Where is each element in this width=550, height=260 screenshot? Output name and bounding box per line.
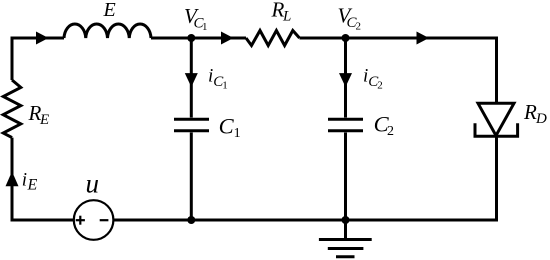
wire C2 branch lower [344, 133, 347, 221]
arrow i_C2 [339, 73, 352, 87]
arrow after V_C2 [417, 32, 430, 45]
junction dot ground [342, 216, 350, 224]
arrow on top wire left [36, 32, 49, 45]
wire C2 branch upper [344, 38, 347, 118]
ground [319, 220, 372, 257]
arrow i_E [6, 172, 19, 187]
tunnel diode R_D cathode bracket [475, 123, 518, 136]
voltage source u [74, 200, 114, 240]
wire left lower and bottom-left corner [12, 138, 74, 220]
wire diode to bottom-right corner [113, 135, 496, 220]
arrow before R_L [221, 32, 234, 45]
svg-text:E: E [103, 0, 116, 21]
wire R_L to top-right corner down to diode [300, 38, 497, 103]
capacitor C1 [174, 119, 209, 130]
wire C1 branch upper [190, 38, 193, 118]
wire inductor to R_L [151, 37, 246, 40]
node V_C2 dot [342, 34, 350, 42]
wire top-left corner [12, 38, 64, 80]
capacitor C2 [328, 119, 363, 130]
arrow i_C1 [185, 73, 198, 87]
resistor R_L [246, 31, 300, 46]
wire C1 branch lower [190, 133, 193, 221]
resistor R_E [3, 80, 21, 138]
node V_C1 dot [187, 34, 195, 42]
inductor E [64, 24, 151, 38]
junction dot C1-bottom [187, 216, 195, 224]
tunnel diode R_D triangle [478, 103, 514, 135]
svg-text:u: u [86, 169, 100, 199]
